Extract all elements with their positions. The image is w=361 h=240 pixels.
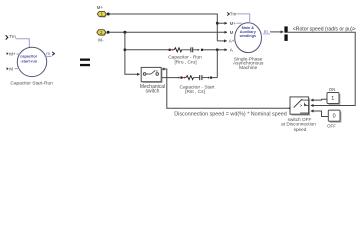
- wire down to mechanical switch: [125, 32, 140, 74]
- wire M+ connector machine: [236, 22, 241, 24]
- wire stub to machine M+: [217, 22, 227, 24]
- connection dot port 2: [107, 31, 110, 34]
- wire stub to machine A+: [217, 40, 226, 42]
- subsystem Capacitor Start-Run (left masked block): [6, 34, 55, 87]
- svg-text:A+: A+: [229, 39, 235, 44]
- icon circle (left block): [17, 47, 46, 76]
- svg-text:m: m: [46, 51, 50, 56]
- wire stub to machine A: [217, 49, 227, 51]
- svg-text:M+: M+: [9, 51, 16, 56]
- block Mechanical switch: [141, 67, 162, 83]
- block constant OFF: [327, 110, 341, 129]
- svg-text:windings: windings: [239, 34, 256, 38]
- wire Tm connector machine: [236, 14, 250, 24]
- svg-text:Disconnection speed = wd(%) *: Disconnection speed = wd(%) * Nominal sp…: [174, 111, 287, 117]
- svg-text:M-: M-: [98, 38, 104, 43]
- wire rotor speed: [288, 32, 356, 105]
- svg-text:OFF: OFF: [327, 124, 336, 129]
- svg-text:M: M: [230, 30, 234, 35]
- wire OFF to switch: [311, 111, 328, 117]
- svg-text:M+: M+: [97, 5, 104, 10]
- block constant ON: [327, 87, 340, 105]
- svg-text:M: M: [9, 66, 13, 71]
- inport 2 M-: [97, 30, 107, 43]
- svg-text:[Rru , Cru]: [Rru , Cru]: [174, 60, 196, 66]
- junction dot M- rail: [123, 31, 126, 34]
- wire m output machine: [270, 31, 283, 33]
- wire riser from start branch: [216, 50, 218, 78]
- port label Tm (left block): [6, 35, 8, 39]
- svg-text:m: m: [264, 29, 268, 34]
- wire m output (left block): [45, 55, 52, 57]
- svg-text:1: 1: [331, 96, 334, 102]
- machine Single-Phase Asynchronous Machine: [227, 12, 283, 71]
- svg-text:[Rst , Cs]: [Rst , Cs]: [185, 89, 205, 95]
- wire M+ rail: [110, 14, 218, 41]
- svg-text:A: A: [230, 48, 233, 53]
- icon circle machine: [235, 23, 262, 53]
- svg-text:-start-run: -start-run: [20, 59, 38, 63]
- port label M+ (left block): [7, 52, 9, 55]
- wire M- rail: [110, 31, 227, 33]
- svg-text:switch: switch: [146, 89, 160, 95]
- svg-text:Capacitor Start-Run: Capacitor Start-Run: [10, 81, 53, 87]
- junction dot control wire: [289, 107, 291, 109]
- svg-text:0: 0: [333, 114, 336, 120]
- svg-text:capacitor: capacitor: [20, 54, 37, 58]
- svg-text:M+: M+: [230, 21, 237, 26]
- svg-text:Machine: Machine: [239, 65, 257, 71]
- svg-text:c: c: [156, 69, 158, 73]
- wire ON to switch: [311, 98, 327, 101]
- inport 1 M+: [97, 5, 107, 17]
- port label M (left block): [7, 67, 9, 70]
- connection dot port 1: [107, 13, 110, 16]
- svg-text:>: >: [300, 103, 303, 108]
- branch Capacitor - Run: [125, 47, 217, 52]
- bus selector: [284, 26, 287, 41]
- junction dot M+ rail: [216, 22, 219, 25]
- svg-text:ON: ON: [329, 87, 336, 92]
- svg-text:speed: speed: [294, 127, 307, 132]
- junction dot run branch: [124, 48, 127, 51]
- svg-text:<Rotor speed (rad/s or pu)>: <Rotor speed (rad/s or pu)>: [293, 27, 356, 33]
- block switch OFF at Disconnection speed: [290, 97, 310, 116]
- wire M stub (left block): [15, 68, 20, 70]
- svg-text:Tm: Tm: [230, 12, 237, 17]
- wire Tm connector (left block): [16, 39, 30, 48]
- wire control to mechanical switch: [162, 69, 290, 108]
- branch Capacitor - Start: [162, 75, 217, 80]
- junction dot A row: [216, 48, 219, 51]
- port label Tm machine: [227, 13, 229, 16]
- svg-text:Tm: Tm: [9, 34, 16, 39]
- wire M+ stub (left block): [16, 53, 19, 55]
- wire m connector machine: [263, 33, 270, 35]
- equals sign: [80, 59, 90, 67]
